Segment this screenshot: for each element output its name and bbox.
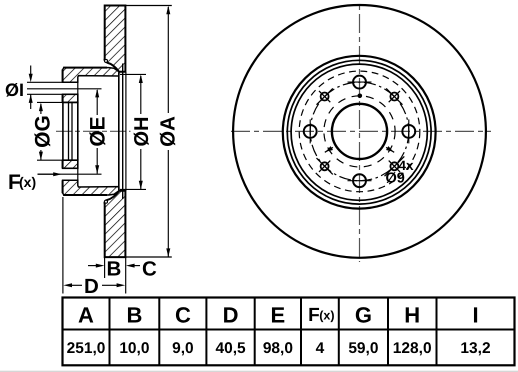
flange wall between bolt hole and bore, top (hatched) — [63, 94, 78, 102]
bolt pitch circle (dash-dot) — [310, 82, 409, 181]
hat bottom band + flange lower wall (hatched) — [63, 180, 119, 195]
bolt hole top edge lines — [27, 81, 78, 83]
dimension D — [63, 283, 72, 287]
svg-text:13,2: 13,2 — [460, 340, 490, 357]
friction ring section bottom (hatched) — [105, 191, 126, 257]
wheel bolt hole N — [353, 76, 366, 89]
svg-text:G: G — [355, 303, 372, 328]
center bore top edge — [63, 101, 78, 103]
hub ring inner — [291, 64, 427, 200]
dashed circle inner — [324, 96, 395, 167]
vertical centerline — [359, 4, 361, 262]
svg-text:59,0: 59,0 — [348, 340, 378, 357]
undercut groove top — [105, 59, 108, 62]
bolt hole mid line top / E ext — [27, 88, 102, 90]
bore chamfer edge 2 — [71, 102, 73, 160]
svg-text:ØA: ØA — [156, 116, 179, 147]
flange right face through hole gap top — [77, 82, 79, 94]
svg-text:A: A — [78, 303, 94, 328]
svg-text:40,5: 40,5 — [216, 340, 247, 357]
horizontal centerline — [231, 130, 491, 132]
arrow on inner dashed circle — [386, 147, 394, 152]
center bore bottom edge — [63, 159, 78, 161]
svg-text:F: F — [308, 305, 320, 326]
bore left face line — [62, 102, 64, 160]
svg-text:E: E — [271, 303, 286, 328]
svg-text:ØH: ØH — [131, 117, 153, 147]
bore right face line — [77, 102, 79, 160]
svg-text:B: B — [126, 303, 142, 328]
svg-text:D: D — [223, 303, 239, 328]
locating hole SW (4x diameter 9) — [321, 162, 329, 170]
svg-text:D: D — [84, 275, 99, 298]
flange left face segments — [62, 69, 64, 82]
undercut groove bottom — [105, 200, 108, 203]
friction ring section top (hatched) — [105, 6, 126, 72]
hub ring outer — [283, 56, 436, 209]
svg-text:(x): (x) — [319, 309, 334, 323]
locating hole NW (4x diameter 9) — [321, 93, 329, 101]
left view axis centerline — [56, 130, 131, 132]
dimension B — [88, 265, 97, 267]
dimension diameter G — [37, 101, 63, 103]
svg-text:B: B — [107, 258, 122, 281]
svg-text:251,0: 251,0 — [67, 340, 106, 357]
svg-text:4: 4 — [316, 340, 325, 357]
svg-text:(x): (x) — [19, 174, 36, 190]
hat web left face — [118, 73, 120, 191]
wheel bolt hole W — [304, 125, 317, 138]
dimension diameter A — [125, 5, 171, 7]
svg-text:I: I — [472, 303, 478, 328]
dashed circle outer — [299, 71, 420, 192]
flange wall between bolt hole and bore, bottom (hatched) — [63, 160, 78, 168]
svg-text:C: C — [175, 303, 191, 328]
wheel bolt hole S — [353, 174, 366, 187]
dimension diameter E — [96, 90, 98, 115]
hat band top outer edge — [63, 67, 107, 69]
flange right face through hole gap bottom — [77, 168, 79, 180]
svg-text:ØI: ØI — [5, 80, 24, 100]
dimension B extension lines — [104, 257, 106, 278]
hat band bottom outer edge — [63, 194, 107, 196]
svg-text:10,0: 10,0 — [119, 340, 149, 357]
dimension diameter I — [30, 66, 32, 76]
node dot on inner dashed circle — [358, 94, 363, 99]
dimension table — [63, 298, 515, 366]
dimension C — [126, 264, 135, 268]
wheel bolt hole E — [402, 125, 415, 138]
arrow on inner dashed circle — [325, 147, 333, 152]
svg-text:ØE: ØE — [87, 116, 110, 146]
dimension diameter H — [120, 73, 146, 75]
bolt hole bottom edge lines — [63, 167, 78, 169]
svg-text:Ø9: Ø9 — [386, 171, 405, 187]
svg-text:ØG: ØG — [32, 115, 55, 148]
locating hole NE (4x diameter 9) — [390, 93, 398, 101]
svg-text:C: C — [142, 258, 157, 281]
svg-text:98,0: 98,0 — [263, 340, 293, 357]
svg-text:128,0: 128,0 — [393, 340, 432, 357]
hub ring middle — [287, 60, 431, 204]
center bore circle — [332, 104, 387, 159]
dimension D extension line — [62, 197, 64, 294]
locating hole SE (4x diameter 9) — [390, 162, 398, 170]
svg-text:H: H — [404, 303, 420, 328]
svg-text:9,0: 9,0 — [172, 340, 194, 357]
web mid edge — [122, 64, 124, 200]
friction face projection line — [125, 72, 127, 191]
bore chamfer edge 1 — [68, 102, 70, 160]
hat top band + flange upper wall (hatched) — [63, 68, 119, 83]
bolt hole mid line bottom / E ext — [38, 173, 102, 175]
outer circle — [233, 5, 486, 258]
